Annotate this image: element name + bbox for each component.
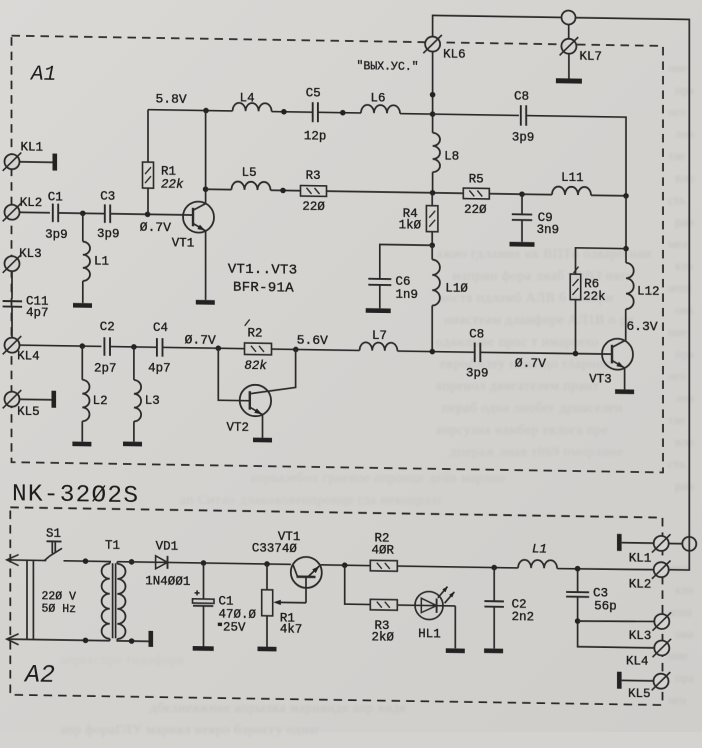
- svg-text:L3: L3: [145, 394, 160, 408]
- label L3: [145, 394, 160, 408]
- T1 secondary top dot: [129, 559, 135, 565]
- resistor R1 22k: [143, 110, 154, 215]
- wire L5 to R3: [271, 189, 301, 191]
- capacitor C5 12p: [313, 102, 318, 122]
- node collector VT1 on rail: [203, 108, 209, 114]
- label C33740: [252, 541, 298, 556]
- svg-text:KL1: KL1: [21, 140, 44, 154]
- terminal KL2: [3, 203, 22, 222]
- ground at KL7: [556, 54, 582, 84]
- label KL1: [21, 140, 44, 154]
- wire S1 to T1: [64, 560, 112, 563]
- svg-text:VD1: VD1: [156, 539, 179, 553]
- svg-text:A1: A1: [29, 63, 56, 86]
- svg-text:Ø.7V: Ø.7V: [185, 332, 216, 347]
- svg-text:KL5: KL5: [628, 687, 651, 701]
- diode VD1 1N4001: [156, 556, 168, 569]
- stray junction dot on KL6 wire: [430, 92, 436, 98]
- inductor L4: [233, 103, 272, 112]
- terminal KL2 A2: [652, 560, 671, 579]
- label KL2: [20, 196, 43, 210]
- svg-text:KL6: KL6: [443, 47, 466, 61]
- label C4 4p7: [148, 321, 171, 376]
- svg-text:L11: L11: [561, 171, 584, 185]
- ground under VT2: [253, 438, 272, 443]
- VT1 base bar: [192, 208, 194, 226]
- wire KL3 to C11: [11, 271, 13, 299]
- label 5.6V: [297, 332, 328, 347]
- label R6 22k: [583, 277, 606, 304]
- right column wire to R6 row: [625, 196, 627, 263]
- VT1 collector lead: [193, 110, 206, 210]
- label C3 56p: [593, 586, 617, 614]
- label L12: [637, 285, 660, 299]
- svg-text:5Ø Hz: 5Ø Hz: [42, 602, 77, 616]
- svg-text:22Ø: 22Ø: [302, 200, 325, 214]
- label KL2 A2: [629, 577, 652, 591]
- svg-text:56p: 56p: [594, 599, 617, 613]
- ground under HL1: [446, 648, 465, 653]
- supply rail 5.8V wire: [148, 110, 233, 111]
- svg-text:T1: T1: [105, 539, 120, 553]
- label VT1: [172, 236, 195, 250]
- node L8 R4 junction: [430, 190, 436, 196]
- note VT1..VT3 BFR-91A: [228, 261, 298, 296]
- mains arrow bottom: [7, 634, 110, 647]
- svg-text:VT2: VT2: [227, 421, 250, 435]
- node R6 branch: [623, 246, 629, 252]
- T1 secondary bottom dot: [129, 638, 135, 644]
- node L11 right column: [623, 193, 629, 199]
- VT2 collector lead to 5.6V node: [250, 349, 296, 395]
- capacitor C11: [3, 301, 23, 307]
- wire L6 to KL6 line: [400, 113, 433, 116]
- wire VT2 base from node: [218, 348, 250, 400]
- capacitor C6 1n9 to ground: [368, 279, 391, 309]
- svg-text:3p9: 3p9: [466, 366, 489, 380]
- svg-text:C8: C8: [469, 327, 484, 341]
- label L5: [242, 166, 257, 180]
- wire C4 to R2: [163, 347, 245, 348]
- ground under C9: [510, 242, 535, 247]
- svg-text:NK-32Ø2S: NK-32Ø2S: [12, 481, 139, 510]
- label KL3: [19, 247, 42, 261]
- label R3 2k0: [372, 619, 395, 644]
- label NK-3202S: [12, 481, 139, 510]
- ground under C6: [366, 308, 391, 313]
- svg-text:VT1..VT3: VT1..VT3: [228, 261, 298, 278]
- resistor R5 220: [463, 188, 489, 199]
- wire KL6 down through rail to L8: [432, 52, 434, 133]
- wire VT1 emitter to R2: [321, 564, 371, 567]
- svg-text:L1: L1: [94, 254, 109, 268]
- inductor L10: [432, 245, 440, 351]
- node L1 tap: [80, 210, 86, 216]
- mains arrow top: [7, 554, 47, 566]
- svg-text:Ø.7V: Ø.7V: [515, 356, 546, 371]
- terminal KL1: [3, 152, 22, 171]
- node L2 tap: [80, 343, 86, 349]
- ground under VT1 emitter: [196, 300, 215, 305]
- svg-text:5.8V: 5.8V: [156, 92, 187, 107]
- svg-text:2kØ: 2kØ: [372, 630, 395, 644]
- label L4: [240, 91, 255, 105]
- label S1: [46, 527, 61, 541]
- label ВЫХ.УС.: [357, 60, 419, 74]
- label L6: [371, 91, 386, 105]
- node rail meets KL6 wire: [430, 111, 436, 117]
- LED HL1: [415, 591, 443, 619]
- node R3 branch: [342, 562, 348, 568]
- capacitor C1 electrolytic: [193, 563, 215, 647]
- label L1 A2: [532, 542, 547, 556]
- label KL4: [17, 349, 40, 363]
- label C1 470.0 25V: [218, 595, 257, 635]
- svg-text:C1: C1: [48, 190, 63, 204]
- capacitor C4 4p7: [157, 338, 163, 357]
- label C1: [45, 190, 68, 242]
- ground at KL1 A2: [617, 534, 654, 552]
- node VT2 base tap: [216, 345, 222, 351]
- resistor R3 2k0: [370, 599, 397, 610]
- label HL1: [418, 627, 441, 641]
- resistor R2 40R: [370, 560, 397, 571]
- ground under R1: [258, 647, 277, 652]
- svg-text:1kØ: 1kØ: [399, 218, 422, 232]
- label 5.8V: [156, 92, 187, 107]
- capacitor C8 3p9 top: [521, 105, 526, 126]
- svg-text:L1: L1: [532, 542, 547, 556]
- svg-text:L8: L8: [444, 150, 459, 164]
- label L7: [372, 329, 387, 343]
- svg-text:2n2: 2n2: [512, 610, 535, 624]
- label R5 220: [464, 172, 487, 217]
- resistor R3 220: [301, 186, 327, 197]
- ground at T1 secondary: [149, 631, 154, 647]
- resistor R4 1k0: [426, 193, 438, 246]
- node R6 bottom: [573, 351, 579, 357]
- module A1 dashed border: [12, 36, 664, 473]
- svg-text:L4: L4: [240, 91, 255, 105]
- label R3 220: [302, 169, 325, 214]
- svg-text:3p9: 3p9: [45, 228, 68, 242]
- wire C1 to node: [58, 212, 104, 215]
- VT1 A2 base stem: [305, 577, 307, 603]
- label L1: [94, 254, 109, 268]
- node L3 tap: [131, 344, 137, 350]
- VT3 base bar: [611, 345, 613, 363]
- inductor L5: [232, 181, 271, 190]
- VT2 base bar: [249, 391, 251, 410]
- wire C8 to VT3 base: [480, 352, 612, 354]
- svg-text:KL2: KL2: [20, 196, 43, 210]
- node L10 bottom: [430, 349, 436, 355]
- svg-text:C6: C6: [396, 275, 411, 289]
- svg-text:KL4: KL4: [626, 654, 649, 668]
- svg-text:R3: R3: [306, 169, 321, 183]
- L5 R3 row wire: [206, 188, 232, 190]
- inductor L6: [361, 105, 400, 114]
- VT1 A2 collector lead: [293, 565, 297, 576]
- VT2 emitter lead: [250, 407, 263, 438]
- label KL4 A2: [626, 654, 649, 668]
- wire KL4 to C2: [20, 345, 102, 346]
- label C11 value 4p7: [26, 294, 49, 320]
- wire to R6: [576, 248, 627, 275]
- svg-text:C3374Ø: C3374Ø: [252, 541, 298, 556]
- terminal KL4: [3, 336, 22, 355]
- wire to KL3: [578, 620, 655, 622]
- label 0.7V at VT1 base: [140, 220, 171, 235]
- terminal KL5: [3, 390, 22, 409]
- label C8 top: [512, 89, 535, 144]
- wire VD1 to VT1: [168, 562, 291, 564]
- resistor R2 82k: [245, 343, 272, 355]
- svg-text:VT3: VT3: [589, 372, 612, 386]
- label KL1 A2: [629, 551, 652, 565]
- transistor VT2 circle: [240, 385, 271, 417]
- svg-text:KL7: KL7: [579, 49, 602, 63]
- node C9 tap: [519, 191, 525, 197]
- svg-text:L5: L5: [242, 166, 257, 180]
- label C3: [97, 190, 120, 242]
- label A1: [29, 63, 56, 86]
- label 6.3V: [626, 319, 657, 334]
- svg-text:4p7: 4p7: [148, 362, 171, 376]
- terminal KL1 A2: [652, 534, 671, 553]
- svg-text:KL3: KL3: [629, 629, 652, 643]
- wire L4 to C5: [272, 111, 313, 114]
- connector plug circle above KL7: [562, 10, 576, 24]
- wire HL1 to ground: [454, 606, 456, 649]
- wire C11 to KL4: [11, 307, 13, 338]
- transistor VT3 circle: [602, 338, 633, 369]
- svg-text:4ØR: 4ØR: [372, 543, 395, 557]
- label L2: [93, 394, 108, 408]
- svg-text:KL2: KL2: [629, 577, 652, 591]
- node VT1 collector to L5: [203, 186, 209, 192]
- resistor R6 22k: [570, 274, 581, 354]
- inductor L1 A2: [518, 560, 557, 569]
- node VT2 collector 5.6V: [293, 347, 299, 353]
- label R2 82k: [244, 326, 267, 373]
- svg-text:12p: 12p: [304, 129, 327, 143]
- transistor VT1 A2 circle: [291, 557, 322, 588]
- node after L5: [280, 188, 286, 194]
- label 1N4001: [145, 574, 190, 589]
- HL1 emission arrows: [438, 586, 455, 603]
- inductor L11: [552, 186, 591, 195]
- svg-text:1N4ØØ1: 1N4ØØ1: [145, 574, 190, 589]
- ground under L1: [73, 303, 92, 308]
- svg-text:3n9: 3n9: [537, 223, 560, 237]
- wire KL1 to plug: [669, 543, 683, 545]
- terminal KL4 A2: [653, 639, 672, 658]
- capacitor C1 3p9: [53, 204, 58, 222]
- svg-text:VT1: VT1: [172, 236, 195, 250]
- terminal KL3: [3, 254, 22, 273]
- coax top wire KL6 to right edge: [433, 15, 690, 570]
- C1 plus mark: [195, 590, 200, 595]
- R1 wiper arrow: [273, 600, 306, 606]
- transistor VT1 circle: [183, 201, 214, 232]
- wire L7 to C8 bottom: [397, 351, 474, 352]
- ground under L2: [72, 442, 91, 447]
- label 220V 50Hz: [42, 590, 77, 616]
- svg-text:C4: C4: [153, 321, 168, 335]
- capacitor C9 3n9 to ground: [512, 194, 532, 242]
- wire KL1 to ground: [20, 161, 53, 164]
- label KL5 A2: [628, 687, 651, 701]
- svg-text:22k: 22k: [161, 177, 184, 191]
- svg-text:KL3: KL3: [19, 247, 42, 261]
- label VT2: [227, 421, 250, 435]
- label L10: [445, 281, 468, 295]
- node C2 tap: [491, 565, 497, 571]
- svg-text:4k7: 4k7: [280, 622, 303, 636]
- svg-text:C5: C5: [306, 86, 321, 100]
- label C2 2n2: [512, 597, 535, 624]
- terminal KL3 A2: [653, 612, 672, 631]
- label R1 4k7: [280, 611, 303, 636]
- node after L4: [281, 109, 287, 115]
- ground under C2 A2: [484, 648, 503, 653]
- svg-text:Ø.7V: Ø.7V: [140, 220, 171, 235]
- label C8 bottom: [466, 327, 489, 381]
- svg-text:22Ø V: 22Ø V: [42, 590, 77, 604]
- label VT3: [589, 372, 612, 386]
- VT1 emitter lead: [193, 223, 206, 300]
- inductor L12: [626, 263, 634, 341]
- svg-text:L1Ø: L1Ø: [445, 281, 468, 295]
- T1 primary top dot: [83, 558, 89, 564]
- svg-text:5.6V: 5.6V: [297, 332, 328, 347]
- capacitor C3 3p9: [105, 204, 110, 222]
- wire KL5 to ground: [20, 398, 52, 401]
- ground at KL5 A2: [617, 672, 654, 690]
- wire KL2 to C1: [20, 211, 50, 213]
- svg-text:R5: R5: [469, 172, 484, 186]
- label R2 40R: [372, 531, 395, 557]
- svg-text:KL1: KL1: [629, 551, 652, 565]
- wire L1 to KL2: [557, 568, 654, 570]
- svg-text:BFR-91A: BFR-91A: [233, 279, 294, 296]
- wire plug circle to KL7: [568, 25, 570, 39]
- inductor L7: [360, 342, 398, 351]
- T1 primary bottom dot: [83, 637, 89, 643]
- svg-text:S1: S1: [46, 527, 61, 541]
- capacitor C8 3p9 bottom: [475, 343, 481, 363]
- wire R4 bottom to C6: [380, 244, 432, 279]
- capacitor C3 56p chain: [566, 568, 654, 647]
- T1 core: [113, 563, 116, 638]
- ground under VT3: [615, 389, 634, 394]
- node after C5: [340, 110, 346, 116]
- module A2 dashed border: [10, 507, 662, 705]
- svg-text:C2: C2: [100, 320, 115, 334]
- wire R3 branch down: [345, 565, 371, 604]
- ground under L3: [123, 442, 142, 447]
- wire C8 to right column: [526, 116, 626, 196]
- wire L11 to right column: [591, 194, 626, 197]
- terminal KL7: [560, 37, 602, 64]
- wire C5 to L6: [318, 111, 361, 114]
- label C9 3n9: [537, 211, 560, 238]
- label C6 1n9: [396, 275, 419, 302]
- svg-text:L6: L6: [371, 91, 386, 105]
- svg-text:KL5: KL5: [17, 405, 40, 419]
- label VD1: [156, 539, 179, 553]
- VT3 emitter lead: [612, 361, 625, 390]
- wire R2 to L7: [272, 349, 360, 350]
- svg-text:KL4: KL4: [17, 349, 40, 363]
- tick above R6: [574, 267, 579, 274]
- potentiometer R1 4k7: [262, 564, 273, 647]
- inductor L1 to ground: [83, 213, 90, 303]
- mains cord double line: [27, 560, 33, 639]
- label L11: [561, 171, 584, 185]
- wire C2 to C4: [110, 346, 157, 349]
- svg-text:L7: L7: [372, 329, 387, 343]
- connector plug circle right: [682, 537, 696, 551]
- wire R3 to R4 node: [327, 191, 464, 193]
- VT1 A2 emitter lead with arrow: [308, 566, 319, 577]
- svg-text:1n9: 1n9: [396, 288, 419, 302]
- node R1 bottom: [145, 211, 151, 217]
- label KL5: [17, 405, 40, 419]
- ground at KL5: [52, 391, 57, 408]
- ground at KL1: [53, 154, 58, 171]
- inductor L8: [433, 133, 440, 193]
- inductor L2 to ground: [82, 346, 89, 442]
- svg-text:L2: L2: [93, 394, 108, 408]
- wire R3 to HL1: [397, 604, 455, 607]
- label 0.7V right: [515, 356, 546, 371]
- transformer T1 secondary: [117, 562, 148, 642]
- svg-text:3p9: 3p9: [512, 130, 535, 144]
- svg-text:22Ø: 22Ø: [464, 203, 487, 217]
- capacitor C2 2p7: [104, 337, 110, 356]
- node R4 bottom: [429, 242, 435, 248]
- wire R5 to L11: [489, 193, 552, 196]
- svg-text:C3: C3: [100, 190, 115, 204]
- label C5 12p: [304, 86, 327, 144]
- node KL3 branch: [575, 618, 581, 624]
- label R1: [161, 164, 184, 191]
- label R4 1k0: [399, 207, 422, 233]
- svg-text:2p7: 2p7: [94, 362, 117, 376]
- svg-text:L12: L12: [637, 285, 660, 299]
- terminal KL5 A2: [652, 672, 671, 691]
- wire T1 to VD1: [117, 561, 168, 564]
- svg-text:R2: R2: [248, 326, 263, 340]
- VT3 collector lead: [612, 341, 625, 348]
- node C3 tap: [575, 566, 581, 572]
- svg-text:82k: 82k: [244, 359, 267, 373]
- svg-text:C8: C8: [514, 89, 529, 103]
- label T1: [105, 539, 120, 553]
- label A2: [23, 660, 55, 690]
- terminal KL6: [423, 35, 465, 62]
- svg-text:A2: A2: [23, 660, 55, 690]
- svg-text:HL1: HL1: [418, 627, 441, 641]
- label VT1 A2: [278, 530, 301, 544]
- ground under C1: [193, 646, 214, 651]
- svg-text:C3: C3: [593, 586, 608, 600]
- capacitor C2 2n2 to ground: [484, 567, 504, 648]
- VT1 A2 base bar: [297, 575, 316, 578]
- tick above R2: [245, 319, 250, 326]
